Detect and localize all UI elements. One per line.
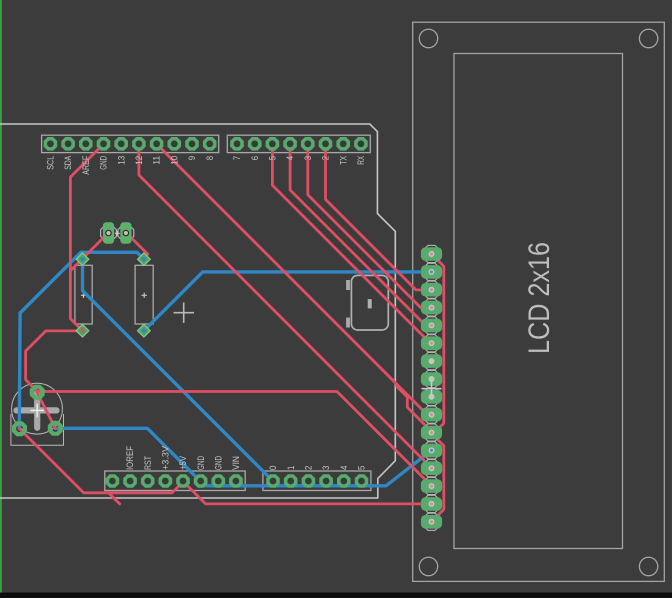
- svg-text:TX: TX: [338, 156, 348, 165]
- wire: [0, 593, 672, 598]
- P1 pad 2: [120, 222, 131, 244]
- svg-text:3: 3: [303, 156, 313, 160]
- svg-text:RX: RX: [356, 156, 366, 165]
- wire LCD pad11 to pad16: [433, 435, 444, 521]
- J1 pin 2 pad SDA: [61, 137, 75, 151]
- svg-text:SDA: SDA: [63, 156, 73, 170]
- J3 pin 1 pad NC: [106, 474, 120, 488]
- wire C1- to RV1 pin1: [26, 331, 83, 392]
- J1 pin 8 pad 10: [168, 137, 182, 151]
- J2 pin 8 pad RX: [354, 137, 368, 151]
- J4 pin 1 pad A0: [266, 474, 280, 488]
- J4 pin 2 pad A1: [284, 474, 298, 488]
- svg-text:SCL: SCL: [46, 156, 56, 170]
- svg-text:2: 2: [304, 466, 314, 470]
- svg-text:GND: GND: [196, 456, 206, 470]
- wire +5V to LCD pad15: [183, 481, 432, 504]
- svg-text:8: 8: [205, 156, 215, 160]
- wire C1+ stub: [81, 252, 84, 259]
- J1 pin labels: [46, 155, 367, 175]
- svg-text:4: 4: [285, 156, 295, 160]
- J3 pin 8 pad VIN: [229, 474, 243, 488]
- potentiometer RV1 outline: [11, 383, 64, 445]
- J3 pin 2 pad IOREF: [123, 474, 137, 488]
- J2 pin 6 pad 2: [319, 137, 333, 151]
- svg-text:GND: GND: [99, 156, 109, 170]
- svg-text:13: 13: [116, 156, 126, 165]
- LCD U2 pad 4: [421, 299, 442, 316]
- wire RV1 pin1 to LCD pad14: [37, 392, 432, 487]
- J2 pin 5 pad 3: [301, 137, 315, 151]
- node anchor-cross-1: [174, 303, 195, 323]
- wire LCD pad1 to pad11: [432, 254, 444, 435]
- J2 pin 1 pad 7: [230, 137, 244, 151]
- J3 pin 4 pad +3.3V: [159, 474, 173, 488]
- node anchor-cross-2: [422, 379, 442, 399]
- svg-text:RST: RST: [143, 456, 153, 470]
- svg-text:+3.3V: +3.3V: [160, 446, 170, 470]
- svg-text:2: 2: [321, 156, 331, 160]
- potentiometer RV1 cross: [17, 393, 57, 428]
- wire C2- to LCD pad2: [144, 272, 432, 331]
- RV1 pad 1: [32, 387, 43, 398]
- J2 pin 7 pad TX: [336, 137, 350, 151]
- svg-text:7: 7: [232, 156, 242, 160]
- LCD U2 pad 15: [421, 495, 442, 512]
- J3 J4 pin labels: [125, 445, 366, 470]
- C1 pad -: [76, 324, 89, 337]
- svg-text:GND: GND: [213, 456, 223, 470]
- J1 pin 1 pad SCL: [44, 137, 58, 151]
- svg-text:11: 11: [152, 156, 162, 165]
- wire RV1 pin3 up to C2+: [19, 252, 144, 428]
- LCD U2 pad 1: [421, 245, 442, 262]
- J1 pin 6 pad 12: [132, 137, 146, 151]
- svg-text:+5V: +5V: [178, 456, 188, 470]
- LCD U2 pad 2: [421, 263, 442, 280]
- svg-text:6: 6: [250, 156, 260, 160]
- wire RV1 pin2 to GND to LCD pad12: [55, 428, 432, 486]
- J1 pin 4 pad GND: [97, 137, 111, 151]
- LCD U2 pad 14: [421, 478, 442, 495]
- svg-text:12: 12: [134, 156, 144, 165]
- LCD U2 pad 12: [421, 442, 442, 459]
- node left-edge: [0, 0, 2, 593]
- J2 pin 2 pad 6: [248, 137, 262, 151]
- wire pin5 to LCD pad6: [272, 144, 432, 343]
- J2 pin 4 pad 4: [283, 137, 297, 151]
- RV1 pad 2: [50, 423, 61, 434]
- svg-text:3: 3: [321, 466, 331, 470]
- J4 pin 6 pad A5: [355, 474, 369, 488]
- J3 pin 6 pad GND: [194, 474, 208, 488]
- J3 pin 7 pad GND: [212, 474, 226, 488]
- J4 pin 5 pad A4: [337, 474, 351, 488]
- J2 pin 3 pad 5: [266, 137, 280, 151]
- J1 pin 5 pad 13: [114, 137, 128, 151]
- LCD U2 pad 11: [421, 424, 442, 441]
- LCD module U2 outline: [413, 22, 665, 581]
- board outline: [0, 124, 395, 498]
- wire P1 pin2 to C2+: [126, 233, 148, 260]
- LCD U2 pad 13: [421, 460, 442, 477]
- wire GND header to C1-: [70, 144, 103, 331]
- wire RV1 pin3 to +5V: [19, 429, 183, 493]
- svg-text:10: 10: [169, 156, 179, 165]
- LCD U2 pad 3: [421, 281, 442, 298]
- J3 pin 5 pad +5V: [176, 474, 190, 488]
- capacitor C1 outline: [75, 265, 92, 324]
- LCD U2 pad 5: [421, 317, 442, 334]
- LCD U2 pad 8: [421, 370, 442, 387]
- J3 pin 3 pad RST: [141, 474, 155, 488]
- wire junction +5V: [109, 493, 120, 504]
- J4 pin 3 pad A2: [302, 474, 316, 488]
- C1 pad +: [76, 253, 89, 266]
- wire pin11 to LCD pad10: [157, 144, 433, 415]
- svg-text:IOREF: IOREF: [125, 445, 135, 470]
- wire P1 pin1 to GND: [70, 233, 108, 271]
- svg-text:AREF: AREF: [81, 155, 91, 175]
- wire pin2 to LCD pad3: [326, 144, 433, 290]
- connector J1 outline: [42, 135, 219, 152]
- wire to LCD pad11: [380, 367, 433, 432]
- LCD U2 pad 7: [421, 353, 442, 370]
- J1 pin 9 pad 9: [185, 137, 199, 151]
- J1 pin 3 pad AREF: [79, 137, 93, 151]
- LCD U2 pad 16: [421, 513, 442, 530]
- wire pin12 to LCD pad13: [139, 144, 432, 469]
- RV1 pad 3: [14, 423, 25, 434]
- svg-text:LCD 2x16: LCD 2x16: [523, 242, 556, 354]
- wire pin3 to LCD pad4: [308, 144, 433, 308]
- svg-text:4: 4: [339, 466, 349, 470]
- P1 pad 1: [103, 222, 114, 244]
- wire C1+ to A0: [83, 259, 274, 481]
- C2 pad -: [138, 324, 151, 337]
- connector J2 outline: [227, 135, 370, 152]
- svg-text:9: 9: [187, 156, 197, 160]
- svg-text:5: 5: [357, 466, 367, 470]
- connector J4 analog outline: [263, 471, 371, 491]
- J1 pin 7 pad 11: [150, 137, 164, 151]
- wire RV1 pin1 to pin2: [37, 393, 55, 429]
- capacitor C3 outline: [351, 275, 388, 330]
- svg-text:0: 0: [268, 466, 278, 470]
- C2 pad +: [138, 253, 151, 266]
- J1 pin 10 pad 8: [203, 137, 217, 151]
- svg-text:5: 5: [268, 156, 278, 160]
- capacitor C2 outline: [135, 265, 153, 324]
- connector J3 power outline: [105, 471, 245, 491]
- LCD U2 pad 9: [421, 388, 442, 405]
- LCD U2 pad 6: [421, 335, 442, 352]
- svg-text:1: 1: [286, 466, 296, 470]
- connector P1 outline: [101, 225, 117, 241]
- J4 pin 4 pad A3: [319, 474, 333, 488]
- LCD U2 pad 10: [421, 406, 442, 423]
- svg-text:VIN: VIN: [231, 456, 241, 470]
- wire pin4 to LCD pad5: [290, 144, 432, 325]
